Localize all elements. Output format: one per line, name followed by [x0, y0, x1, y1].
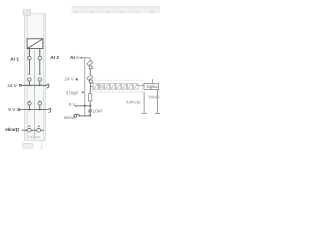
svg-text:funkcja: funkcja: [126, 99, 141, 104]
bus drop line 1: [141, 92, 146, 114]
DIN rail bus bar: [72, 6, 161, 12]
chain box 1: [93, 84, 98, 90]
24V power rail A: [19, 84, 49, 88]
left shield contact: [17, 128, 19, 131]
svg-text:ekran: ekran: [64, 115, 76, 120]
svg-text:750-454: 750-454: [28, 136, 41, 140]
module center line: [34, 51, 36, 140]
0V power rail B: [18, 108, 51, 112]
vertical guide line: [84, 58, 86, 116]
terminal row4 circles (shield): [27, 128, 40, 132]
terminal row2 circles: [28, 78, 42, 81]
module outline: [25, 14, 46, 141]
chain box 7: [127, 84, 132, 90]
svg-text:AI 2: AI 2: [50, 55, 59, 61]
wires below row1: [29, 60, 39, 74]
wire: [89, 69, 91, 75]
svg-text:Wad IB.: Wad IB.: [148, 94, 160, 99]
clamp chevrons row2: [29, 74, 41, 75]
AI in wire: [82, 57, 90, 59]
svg-text:ekran: ekran: [5, 127, 17, 132]
terminal row1 circles: [28, 56, 42, 60]
clamp chevrons row3: [29, 101, 41, 102]
wire chain to logika: [138, 84, 144, 86]
wire R3 to 0V: [89, 101, 91, 110]
top-right notch: [44, 14, 45, 18]
latch: [23, 10, 30, 16]
clamp chevrons row4: [28, 126, 39, 127]
chain box 4: [110, 84, 115, 90]
circle C2: [89, 80, 92, 83]
resistor R2 (slanted): [87, 75, 93, 80]
svg-text:24 V: 24 V: [7, 83, 17, 88]
wire down to R3: [89, 87, 91, 94]
svg-text:10nF: 10nF: [93, 109, 104, 114]
chain box 8 (opto): [133, 84, 138, 90]
svg-text:0 V: 0 V: [69, 102, 77, 107]
circle C1: [89, 66, 92, 69]
dashed isolation box: [93, 80, 143, 92]
svg-text:AI 1: AI 1: [10, 56, 19, 62]
bus drop line 2: [155, 89, 160, 113]
stub above logika: [151, 79, 153, 83]
wire to chain: [90, 83, 93, 87]
tick near C1: [93, 67, 94, 69]
wires AD box to terminals row1: [29, 49, 39, 56]
rail teeth: [75, 11, 154, 13]
chain box 6: [122, 84, 127, 90]
AD converter box: [27, 39, 43, 49]
svg-text:logika: logika: [147, 84, 159, 89]
svg-text:370pF: 370pF: [66, 91, 79, 96]
input wire down: [89, 57, 91, 61]
resistor R1 (slanted): [87, 60, 93, 65]
AI in arrow: [80, 57, 83, 59]
shield link line row4: [22, 129, 44, 131]
chain box 3: [105, 84, 110, 90]
0V line: [75, 105, 91, 107]
tick near C2: [93, 81, 94, 83]
module body: [25, 14, 46, 141]
terminal row3 circles: [28, 102, 42, 105]
svg-text:24 V: 24 V: [64, 77, 74, 82]
chain box 5: [116, 84, 121, 90]
svg-text:AI: AI: [70, 55, 75, 61]
chain box 2 (amp): [99, 84, 104, 90]
capacitor 10nF: [88, 110, 92, 112]
resistor R3 upright: [88, 94, 91, 101]
foot: [23, 140, 42, 149]
svg-text:0 V: 0 V: [8, 107, 16, 113]
stubs row2 to rail A: [29, 81, 39, 85]
stubs row3 to rail B: [29, 105, 39, 109]
earth line + curl: [74, 114, 90, 117]
svg-text:in: in: [76, 55, 80, 61]
logika box: [144, 83, 159, 89]
wire cap to earth line: [89, 112, 91, 116]
